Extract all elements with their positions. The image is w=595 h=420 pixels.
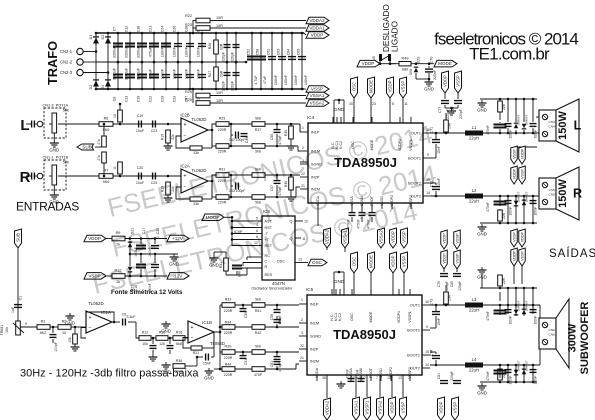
wire	[232, 227, 254, 229]
svg-text:22uH: 22uH	[469, 368, 479, 373]
junction	[230, 174, 233, 177]
junction	[523, 132, 526, 135]
trimmer arrow	[13, 323, 24, 333]
svg-text:RES: RES	[265, 273, 273, 277]
capacitor C64 100nF	[288, 56, 296, 60]
wire cap column	[189, 62, 191, 89]
wire	[299, 131, 301, 133]
wire L1 to CN4	[483, 132, 539, 134]
wire	[211, 181, 213, 197]
wire	[219, 332, 221, 352]
svg-text:C64: C64	[287, 49, 291, 56]
wire cap column	[251, 33, 253, 89]
resistor R22 10R	[196, 18, 210, 23]
wire	[507, 199, 509, 223]
junction	[251, 88, 254, 91]
wire cap column	[201, 62, 203, 89]
wire clamp rail	[480, 381, 537, 383]
capacitor C81 220pF	[440, 380, 448, 384]
wire to CN6-2	[539, 305, 540, 325]
wire to R49	[390, 63, 399, 65]
resistor R12b 10k	[139, 336, 151, 341]
svg-text:C20: C20	[137, 166, 144, 170]
junction	[507, 381, 510, 384]
wire	[231, 185, 233, 187]
wire to IC5 IN1M	[265, 326, 299, 328]
wire RC	[247, 256, 262, 258]
capacitor C47 220pF	[233, 72, 240, 76]
wire	[214, 331, 220, 333]
svg-text:220pF: 220pF	[222, 81, 226, 91]
net flag VDDP	[306, 32, 329, 39]
wire	[296, 187, 300, 197]
resistor R5 10k	[73, 334, 78, 344]
net flag VDDP switch	[357, 60, 380, 67]
svg-text:GND: GND	[49, 148, 59, 153]
wire flag to IC4	[402, 98, 404, 123]
wire	[219, 305, 221, 332]
capacitor C62 100nF	[268, 56, 276, 60]
svg-text:R23: R23	[185, 23, 192, 27]
inductor L4 22uH	[465, 357, 483, 373]
wire	[229, 145, 252, 147]
svg-text:100nF: 100nF	[304, 74, 308, 85]
wire	[507, 365, 509, 374]
svg-text:GND: GND	[49, 200, 59, 205]
junction	[276, 326, 279, 329]
junction	[169, 337, 172, 340]
junction	[235, 61, 238, 64]
wire C	[243, 262, 262, 264]
net flag +12V	[167, 235, 189, 242]
svg-text:9: 9	[426, 325, 428, 329]
svg-text:VDDA1: VDDA1	[309, 26, 325, 31]
wire fb	[105, 312, 114, 322]
svg-text:+: +	[184, 123, 187, 129]
junction	[153, 61, 156, 64]
junction	[141, 32, 144, 35]
wire	[202, 198, 212, 200]
svg-text:1k: 1k	[62, 331, 66, 335]
junction	[301, 32, 304, 35]
junction	[499, 287, 502, 290]
wire	[499, 305, 501, 315]
svg-text:C65: C65	[297, 49, 301, 56]
junction	[153, 88, 156, 91]
junction	[532, 364, 535, 367]
wire	[220, 351, 222, 353]
ground R15	[164, 143, 173, 150]
resistor R16 6k8	[173, 336, 185, 341]
wire cap column	[129, 33, 131, 62]
wire R22 to VDDA2	[210, 20, 306, 22]
junction	[499, 98, 502, 101]
wire	[202, 347, 214, 349]
capacitor C73 15nF	[432, 311, 440, 315]
resistor R31 220R	[216, 173, 229, 178]
speaker L cone	[556, 99, 579, 152]
junction	[231, 238, 234, 241]
capacitor C19 10uF	[138, 121, 142, 128]
ground IC9	[209, 255, 219, 268]
svg-text:C55: C55	[270, 134, 274, 140]
wire input	[26, 175, 31, 177]
capacitor C83 470nF	[494, 124, 507, 129]
junction	[435, 195, 438, 198]
svg-text:IC2B: IC2B	[180, 113, 190, 118]
svg-text:SUBWOOFER: SUBWOOFER	[579, 302, 591, 375]
wire	[265, 196, 296, 198]
wire	[445, 113, 447, 120]
wire OUT2 to L2	[431, 195, 465, 197]
svg-text:−: −	[191, 335, 194, 341]
inductor L3 22uH	[465, 297, 483, 313]
wire flag to IC4	[370, 98, 372, 123]
svg-text:D1: D1	[89, 35, 93, 40]
junction	[153, 32, 156, 35]
svg-text:IN2M: IN2M	[310, 360, 319, 364]
wire	[507, 288, 509, 308]
svg-text:22uH: 22uH	[469, 136, 479, 141]
svg-text:47uF: 47uF	[263, 75, 267, 84]
svg-text:GND: GND	[477, 232, 487, 237]
svg-text:100nF: 100nF	[160, 46, 164, 57]
svg-text:L: L	[20, 117, 29, 134]
capacitor input CN1-3	[31, 121, 35, 128]
junction	[251, 32, 254, 35]
svg-text:+: +	[89, 315, 92, 321]
wire	[435, 360, 437, 365]
wire	[213, 332, 215, 348]
wire	[435, 183, 437, 185]
wire	[242, 263, 244, 267]
wire flag to IC5	[370, 273, 372, 295]
svg-text:100nF: 100nF	[196, 46, 200, 57]
junction	[532, 222, 535, 225]
diode D8 1N4007	[514, 201, 519, 207]
svg-text:470nF: 470nF	[486, 311, 490, 320]
ground R5	[71, 344, 80, 351]
svg-text:VDDP: VDDP	[311, 33, 324, 38]
junction	[499, 195, 502, 198]
wire	[444, 105, 446, 108]
capacitor C74 15nF	[432, 355, 440, 359]
wire	[523, 368, 525, 382]
junction	[152, 337, 155, 340]
svg-text:150W: 150W	[557, 179, 569, 208]
svg-text:R49: R49	[402, 57, 409, 61]
speaker R cone	[556, 167, 579, 220]
svg-text:10k: 10k	[5, 327, 9, 333]
capacitor CT0 220nF	[425, 68, 433, 72]
net flag VSSP above IC5	[401, 252, 408, 273]
junction	[435, 364, 438, 367]
junction	[507, 98, 510, 101]
wire	[515, 99, 517, 122]
capacitor C72 15nF	[432, 186, 440, 190]
wire	[152, 350, 154, 354]
wire return	[516, 146, 537, 148]
junction	[95, 32, 98, 35]
svg-text:22R: 22R	[502, 103, 506, 110]
svg-text:470uF: 470uF	[148, 68, 152, 79]
svg-text:C19: C19	[136, 96, 140, 103]
wire to +12V	[125, 238, 167, 240]
svg-text:VDDP: VDDP	[391, 231, 396, 243]
svg-text:220R: 220R	[218, 128, 227, 132]
op-amp IC1A	[86, 311, 112, 333]
svg-text:POT1B: POT1B	[56, 156, 69, 160]
svg-text:16: 16	[425, 300, 429, 304]
svg-text:C58: C58	[256, 49, 260, 56]
wire Qbar	[295, 237, 301, 239]
junction	[507, 287, 510, 290]
svg-text:22k: 22k	[171, 134, 175, 140]
wire	[129, 241, 131, 249]
diode D12 1N4007	[522, 369, 527, 375]
wire	[213, 332, 215, 348]
svg-text:5k6: 5k6	[255, 298, 261, 302]
wire	[457, 105, 459, 108]
svg-text:15nF: 15nF	[437, 318, 441, 326]
net flag VDDP sub1	[441, 230, 448, 249]
wire	[457, 93, 459, 99]
junction	[523, 222, 526, 225]
wire	[290, 139, 292, 143]
svg-text:IC1B: IC1B	[202, 320, 212, 325]
svg-text:IN1P: IN1P	[310, 303, 319, 307]
svg-text:3300uF: 3300uF	[136, 67, 140, 80]
wire NC tie left	[333, 100, 335, 123]
capacitor C30 15nF	[205, 354, 209, 361]
resistor R46	[289, 177, 294, 190]
wire	[230, 124, 232, 146]
ground supply	[169, 254, 179, 267]
ground R19	[164, 195, 173, 202]
wire	[276, 324, 278, 327]
svg-text:VDDP: VDDP	[388, 80, 393, 92]
capacitor C60 470pF	[274, 319, 281, 323]
svg-text:1uF: 1uF	[11, 307, 15, 313]
resistor R18 33k	[190, 197, 202, 201]
wire to IC1A	[71, 326, 86, 328]
svg-text:SAÍDAS: SAÍDAS	[549, 247, 595, 260]
wire	[52, 327, 54, 333]
wire gnd stub	[481, 275, 483, 288]
svg-text:VSSP1: VSSP1	[365, 400, 370, 414]
wire	[499, 196, 501, 206]
resistor R40 5k6	[252, 195, 265, 200]
junction	[242, 304, 245, 307]
wire	[265, 145, 298, 147]
svg-text:GND: GND	[477, 391, 487, 396]
wire clamp rail	[480, 222, 537, 224]
svg-text:220R: 220R	[224, 373, 233, 377]
capacitor C85 470nF	[494, 310, 507, 315]
net flag VDDP subr2	[511, 248, 518, 266]
wire	[236, 271, 238, 275]
svg-text:N.C2: N.C2	[338, 313, 342, 321]
wire OUT2 to L4	[430, 364, 465, 366]
junction	[435, 304, 438, 307]
connector CN5	[539, 178, 558, 209]
wire D1 D2 column	[95, 33, 97, 89]
svg-text:VDDP: VDDP	[362, 61, 375, 66]
wire BOOT2	[431, 182, 436, 184]
capacitor C17 100uF	[136, 245, 146, 250]
wire to -12V	[125, 275, 167, 277]
junction	[192, 88, 195, 91]
wire IC2B feedback	[176, 136, 190, 148]
svg-text:14: 14	[426, 191, 430, 195]
svg-text:ENTRADAS: ENTRADAS	[16, 200, 79, 214]
junction	[523, 287, 526, 290]
wire	[229, 196, 252, 198]
capacitor C58 47uF	[256, 56, 266, 61]
wire L signal	[58, 123, 99, 125]
junction	[196, 356, 199, 359]
wire	[231, 134, 233, 136]
resistor R33 220R	[222, 303, 235, 308]
junction	[129, 253, 132, 256]
svg-text:VDDP: VDDP	[513, 250, 517, 261]
junction	[260, 32, 263, 35]
junction	[515, 364, 518, 367]
wire	[229, 174, 252, 176]
junction	[103, 123, 106, 126]
junction	[231, 220, 234, 223]
junction	[291, 88, 294, 91]
capacitor C63 100nF	[278, 56, 286, 60]
net flag OSC above IC4	[351, 77, 358, 98]
svg-text:3300uF: 3300uF	[112, 67, 116, 80]
wire -rail	[96, 88, 304, 90]
capacitor C42 100pF	[235, 132, 239, 139]
svg-text:R: R	[20, 169, 31, 186]
svg-text:R: R	[265, 265, 268, 269]
svg-text:470nF: 470nF	[486, 202, 490, 211]
net flag VSSP subr1	[511, 229, 518, 247]
wire R signal	[58, 175, 99, 177]
wire	[229, 123, 252, 125]
wire IC2A feedback	[176, 187, 190, 199]
ground C9	[149, 354, 158, 361]
junction	[276, 123, 279, 126]
svg-text:C62: C62	[278, 318, 282, 324]
ground switch	[424, 79, 434, 92]
capacitor C13 3300uF	[125, 74, 135, 79]
wire	[361, 217, 363, 222]
svg-text:4,7uF: 4,7uF	[254, 75, 258, 85]
wire	[290, 190, 292, 194]
junction	[499, 364, 502, 367]
net flag VSSA1 row1	[342, 228, 349, 248]
wire	[507, 196, 509, 205]
wire	[499, 122, 501, 123]
junction	[129, 32, 132, 35]
speaker SUB cone	[556, 299, 569, 368]
svg-text:VSSP: VSSP	[402, 256, 407, 268]
wire	[151, 337, 156, 339]
junction	[95, 50, 98, 53]
svg-text:150W: 150W	[557, 111, 569, 140]
wire	[50, 326, 58, 328]
wire	[276, 175, 278, 180]
ground pin3	[65, 313, 75, 326]
junction	[226, 61, 229, 64]
svg-text:220R: 220R	[224, 309, 233, 313]
svg-text:L: L	[574, 119, 582, 133]
svg-text:R27: R27	[208, 71, 212, 78]
junction	[435, 132, 438, 135]
svg-text:LIGADO: LIGADO	[391, 21, 400, 52]
junction	[226, 88, 229, 91]
capacitor input CN1-1	[31, 173, 35, 180]
wire	[202, 147, 212, 149]
wire L2 to CN5	[483, 195, 539, 197]
wire	[276, 352, 278, 356]
svg-text:10R: 10R	[448, 122, 452, 129]
wire zobel	[499, 292, 501, 301]
wire	[338, 100, 340, 104]
svg-text:22uH: 22uH	[469, 308, 479, 313]
wire	[536, 116, 539, 118]
wire	[152, 338, 154, 344]
svg-text:VDDP: VDDP	[513, 168, 517, 179]
wire	[154, 239, 156, 245]
op-amp IC2A	[181, 169, 208, 193]
capacitor C52 4,7uF	[247, 56, 257, 61]
ground zobel SUB2	[477, 383, 487, 396]
svg-text:SGND: SGND	[310, 335, 321, 339]
svg-text:TRIM1: TRIM1	[0, 325, 4, 336]
wire L to C19	[113, 123, 163, 125]
svg-text:9: 9	[427, 153, 429, 157]
wire cap column	[153, 62, 155, 89]
wire to R24	[192, 89, 194, 103]
svg-text:470uF: 470uF	[148, 46, 152, 57]
svg-text:1N4007: 1N4007	[525, 300, 529, 311]
resistor R7 5K6	[99, 174, 113, 179]
wire	[211, 356, 214, 358]
switch CN9	[379, 54, 391, 61]
svg-text:OSC: OSC	[352, 82, 357, 91]
capacitor C45 220pF	[233, 44, 240, 48]
svg-text:VDDA2: VDDA2	[309, 18, 325, 23]
svg-text:33k: 33k	[193, 151, 199, 155]
svg-text:8K2: 8K2	[40, 331, 47, 335]
resistor R24 10R	[196, 93, 210, 98]
resistor R27 33R	[214, 67, 219, 81]
svg-text:100nF: 100nF	[509, 129, 513, 138]
ground IC1B bias	[161, 321, 171, 334]
wire	[103, 124, 105, 136]
svg-text:CN2-1: CN2-1	[60, 49, 73, 54]
svg-text:220R: 220R	[218, 201, 227, 205]
svg-text:100nF: 100nF	[196, 68, 200, 79]
wire cap column	[226, 33, 228, 62]
junction	[515, 132, 518, 135]
svg-text:C7: C7	[112, 27, 116, 32]
capacitor C26 100nF	[174, 43, 182, 47]
svg-text:220nF: 220nF	[433, 70, 437, 80]
wire cap column	[189, 33, 191, 62]
wire input	[35, 123, 37, 125]
capacitor C93 100nF	[530, 369, 537, 373]
svg-text:47k: 47k	[97, 155, 101, 161]
svg-text:220pF: 220pF	[458, 281, 462, 290]
wire	[532, 99, 534, 122]
